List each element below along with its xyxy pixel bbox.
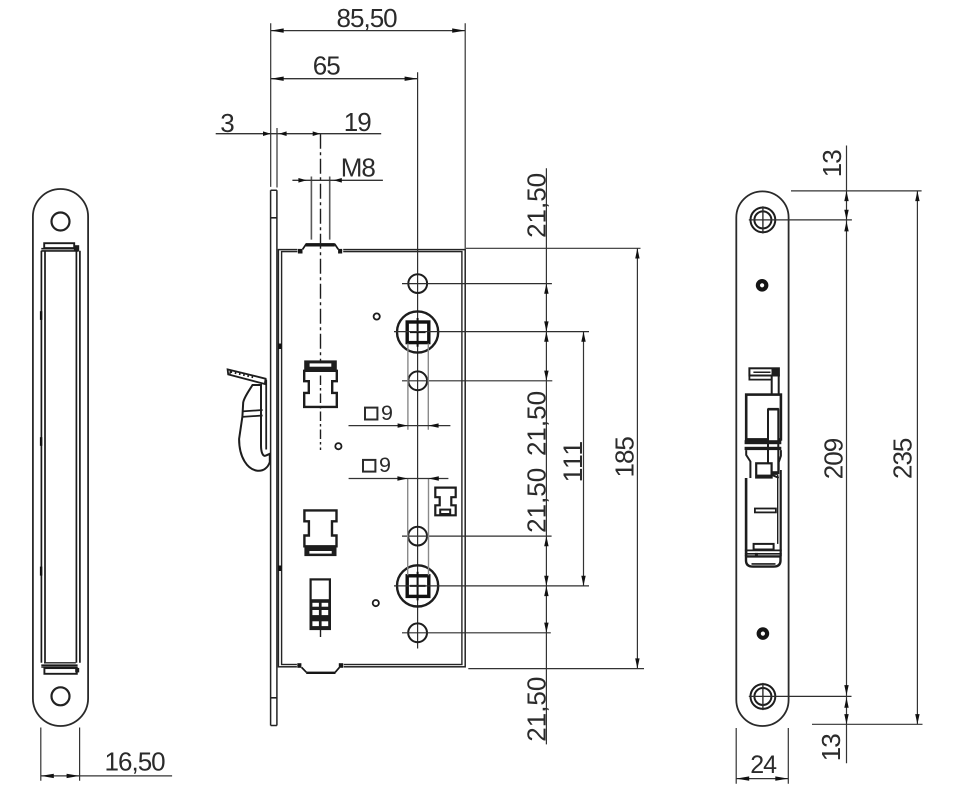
arrow up of 209 top <box>844 221 848 231</box>
dimension 85,50 arrows <box>271 28 284 32</box>
forend strip divider bottom <box>271 697 277 699</box>
top bump slants <box>303 244 339 250</box>
wall tick 2 <box>40 437 42 446</box>
bottom bump slants <box>302 667 340 672</box>
latch: top tab <box>749 368 779 375</box>
latch: lower channel right wall inner <box>777 475 779 544</box>
stacked dimension line 21,50 column <box>545 168 547 744</box>
screw hole 1 <box>408 274 427 293</box>
wall tick 1 <box>40 311 42 320</box>
screw hole 4 horizontal line <box>402 632 551 634</box>
svg-text:235: 235 <box>888 438 918 479</box>
striker plate outline <box>736 191 788 726</box>
svg-text:21,50: 21,50 <box>521 677 551 742</box>
latch: right post <box>772 376 779 410</box>
dimension 111 line <box>583 332 585 586</box>
latch: waist right edge <box>779 450 781 470</box>
arrow down above screw2 line <box>544 371 548 381</box>
svg-text:111: 111 <box>558 440 588 482</box>
arrow up of 13 bottom <box>844 698 848 708</box>
screw hole 3 horizontal line <box>402 535 552 537</box>
arrow down at plate bottom line <box>844 714 848 724</box>
follower spool lower: body <box>304 510 336 546</box>
top screw: cross horizontal + extension <box>749 219 852 221</box>
dimension 185 line <box>636 248 638 668</box>
latch: lower channel tick <box>755 509 776 513</box>
case top extension line <box>466 247 641 249</box>
case wall rivet tab upper <box>278 344 282 350</box>
screw hole 2 <box>408 371 427 390</box>
bottom screw: inner circle <box>754 688 771 705</box>
forend strip divider top <box>271 217 277 219</box>
spindle hub upper: circle <box>397 311 438 352</box>
dimension 16,50 arrow right <box>67 774 80 778</box>
latch: lower channel right wall outer <box>780 470 782 556</box>
lock case inner contour <box>282 252 462 665</box>
arrow up at screw1 line <box>544 284 548 294</box>
top screw: inner circle <box>754 211 771 228</box>
faceplate bottom screw hole <box>52 687 70 705</box>
dimension 24 extension lines <box>736 728 788 784</box>
svg-text:9: 9 <box>379 453 391 477</box>
plate bottom extension line <box>812 723 923 725</box>
latch: bottom inner box <box>754 544 774 550</box>
latch: small box bottom bar <box>756 475 771 478</box>
dimension 16,50 line <box>41 775 172 777</box>
screw hole 1 horizontal line <box>402 283 552 285</box>
latch: top tab lip <box>749 376 771 380</box>
svg-text:19: 19 <box>344 107 371 137</box>
svg-text:13: 13 <box>817 150 847 177</box>
channel bottom cap right block <box>75 668 79 673</box>
arrow down above spindle1 line <box>544 321 548 331</box>
spindle hub upper horizontal line <box>394 331 589 333</box>
svg-text:65: 65 <box>313 51 340 81</box>
top pin hole <box>758 281 766 289</box>
spindle hub lower: square <box>407 576 429 597</box>
spring bolt slide: striped block <box>311 599 330 629</box>
dimension 19 arrow <box>313 131 321 136</box>
hook arm tip cap <box>229 370 232 375</box>
svg-text:185: 185 <box>610 437 640 478</box>
bottom pin hole <box>759 629 767 637</box>
square 9 lower: dimension line <box>349 478 449 480</box>
centerline (follower axis, dash-dot) <box>320 134 322 362</box>
latch: bottom cap inner line <box>752 563 776 565</box>
svg-text:9: 9 <box>381 401 393 425</box>
top edge bump cover <box>297 247 343 255</box>
dimension 235 vertical line <box>916 191 918 724</box>
top screw: outer circle <box>751 208 776 233</box>
wall tick 3 <box>40 567 42 576</box>
svg-text:16,50: 16,50 <box>105 746 166 776</box>
latch: bottom small block <box>755 553 758 556</box>
top bump right block <box>338 249 342 254</box>
square 9 upper: square symbol <box>365 408 377 420</box>
square 9 lower: square symbol <box>363 460 375 472</box>
square 9 lower: extension lines <box>408 479 429 576</box>
centerline lower stub <box>320 621 322 637</box>
screw hole 2 horizontal line <box>402 380 552 382</box>
spindle axis vertical line <box>417 72 419 648</box>
latch: diagonal link <box>772 475 779 478</box>
svg-text:M8: M8 <box>341 153 376 183</box>
latch: bottom cap <box>746 556 781 566</box>
dimension 65 line <box>271 78 418 80</box>
latch: top tab slot line <box>753 371 770 373</box>
channel right wall (double line) <box>76 251 80 663</box>
rivet dot lower <box>373 600 379 606</box>
hook arm serrations <box>231 370 252 378</box>
latch: hook edge bar bottom cap <box>768 471 778 475</box>
channel top cap bar <box>44 243 74 248</box>
dimension 65 arrows <box>271 77 284 81</box>
channel bottom inner line <box>44 662 76 664</box>
hook serrated arm <box>228 369 266 384</box>
channel top cap right block <box>74 245 79 251</box>
latch: hook edge bar <box>768 410 778 474</box>
latch: waist left edge <box>746 450 750 478</box>
svg-text:13: 13 <box>816 734 846 761</box>
spring bolt slide: outer <box>311 579 330 629</box>
follower spool upper: top bar slot <box>310 363 332 366</box>
channel top cap double line <box>41 249 78 251</box>
faceplate top screw hole <box>52 213 70 231</box>
dimension 235 arrows <box>915 191 919 201</box>
dimension 85,50 extension line left <box>270 23 272 187</box>
dimension 3/19 shared arrow <box>279 131 287 136</box>
dimension 16,50 extension lines <box>41 728 80 781</box>
follower spool upper: body <box>304 371 337 407</box>
svg-text:209: 209 <box>819 438 849 479</box>
dimension 13/209 vertical line <box>846 146 848 764</box>
channel bottom cap double line <box>41 665 77 667</box>
svg-text:85,50: 85,50 <box>337 3 398 33</box>
bottom bump right block <box>339 663 343 668</box>
dimension 3 / 19 line <box>216 133 382 135</box>
hook bolt band <box>242 410 262 417</box>
dimension 3 arrow <box>263 131 271 136</box>
lock case outer contour <box>278 250 465 667</box>
svg-text:24: 24 <box>750 751 777 779</box>
screw hole 4 <box>408 623 427 642</box>
spring bolt slide: white rows <box>312 603 319 607</box>
arrow down of 209 bottom <box>844 685 848 695</box>
latch: small box <box>756 463 771 477</box>
svg-text:21,50: 21,50 <box>521 173 551 238</box>
arrow up below screw3 line <box>544 536 548 546</box>
latch: band upper <box>745 440 782 444</box>
arrow down above spindle2 line <box>544 576 548 586</box>
top screw: cross vertical <box>762 206 764 233</box>
extension line strip right edge <box>276 128 278 188</box>
dimension 24 line <box>736 778 788 780</box>
rivet dot middle <box>335 443 341 449</box>
bottom screw: outer circle <box>751 684 776 709</box>
dimension M8 arrows <box>298 178 306 183</box>
arrow up below spindle2 line <box>544 586 548 596</box>
spindle hub lower: circle <box>397 565 438 606</box>
square 9 lower: arrows <box>397 476 407 480</box>
arrow down above top screw line <box>844 210 848 220</box>
square 9 upper: dimension line <box>349 425 451 427</box>
screw hole 3 <box>408 527 427 546</box>
dimension 85,50 extension line right <box>464 23 466 249</box>
follower spool upper: top bar <box>304 360 337 370</box>
latch: top tab right block <box>772 369 779 376</box>
dimension 185 arrows <box>635 248 639 258</box>
dimension 85,50 line <box>271 30 466 32</box>
rivet dot upper <box>374 313 380 319</box>
M8 hole lines <box>311 177 329 240</box>
hook bolt body <box>239 385 270 471</box>
follower spool lower: bottom bar slot <box>309 551 331 554</box>
svg-text:3: 3 <box>220 108 234 138</box>
square 9 upper: extension lines <box>408 344 428 430</box>
bottom bump plateau <box>306 672 335 674</box>
dimension M8 line <box>292 179 383 181</box>
svg-text:21,50: 21,50 <box>521 391 551 456</box>
faceplate side-view plate outline <box>33 189 88 726</box>
dimension 111 arrows <box>581 332 585 342</box>
latch: bottom lines <box>745 550 782 553</box>
dimension 16,50 arrow left <box>41 774 54 778</box>
bottom screw: cross vertical <box>762 683 764 710</box>
bottom screw: cross horizontal + extension <box>749 695 852 697</box>
spindle hub lower horizontal line <box>394 585 589 587</box>
stop bracket slot <box>440 510 450 514</box>
top bump plateau <box>306 243 335 246</box>
latch: hook edge bar top cap <box>768 408 779 412</box>
follower spool lower: bottom bar <box>304 546 336 556</box>
forend strip (side view of faceplate) <box>271 190 277 725</box>
stop bracket <box>435 488 455 516</box>
bottom edge bump cover <box>297 662 344 670</box>
latch: band lower <box>745 447 782 450</box>
plate top extension line <box>791 190 922 192</box>
spindle hub upper: square <box>407 322 429 343</box>
channel bottom cap bar <box>44 668 76 674</box>
arrow down above screw4 line <box>544 623 548 633</box>
svg-text:21,50: 21,50 <box>521 468 551 533</box>
bottom bump left block <box>297 663 301 668</box>
square 9 upper: arrows <box>398 423 408 427</box>
latch: lower channel left wall <box>745 478 748 556</box>
case bottom extension line <box>468 668 644 670</box>
channel left wall (double line) <box>41 251 45 663</box>
dimension 24 arrows <box>736 776 749 780</box>
case wall rivet tab lower <box>278 566 282 572</box>
arrow up below spindle1 line <box>544 332 548 342</box>
top bump left block <box>298 249 303 254</box>
arrow up below plate top line <box>844 191 848 201</box>
hook bolt right edge <box>265 380 267 450</box>
latch: main cutout frame <box>746 395 781 440</box>
centerline overlay through upper spool <box>320 376 322 451</box>
